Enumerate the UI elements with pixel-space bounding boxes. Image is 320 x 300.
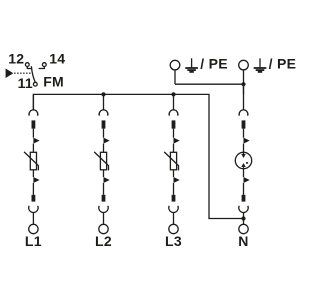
thermal disconnect arrow L2 lower bbox=[104, 177, 110, 183]
thermal disconnect arrow L2 upper bbox=[104, 138, 110, 144]
plug connector arc N lower bbox=[239, 206, 248, 213]
label 11 bbox=[18, 75, 33, 91]
spark gap F1 (N-PE) bbox=[235, 152, 251, 168]
wire L2 to terminal bbox=[103, 213, 105, 225]
wire L1 top drop bbox=[32, 94, 34, 110]
wire L2 top drop bbox=[103, 94, 105, 110]
terminal L1 bbox=[29, 224, 38, 233]
label L3 bbox=[165, 233, 182, 249]
plug connector arc L3 lower bbox=[169, 206, 178, 213]
thermal disconnect arrow L1 upper bbox=[33, 138, 39, 144]
contact point 12 bbox=[25, 63, 31, 69]
wire N to terminal bbox=[243, 213, 245, 225]
plug connector arc L1 lower bbox=[29, 206, 38, 213]
svg-text:L3: L3 bbox=[165, 233, 182, 249]
wire L2 lower bbox=[103, 183, 105, 195]
terminal PE right bbox=[239, 60, 249, 70]
plug connector arc L2 upper bbox=[99, 110, 108, 116]
svg-text:FM: FM bbox=[43, 73, 64, 89]
actuator dotted link bbox=[14, 72, 30, 74]
varistor L2 bbox=[94, 152, 108, 171]
actuator arrow FM bbox=[6, 69, 14, 79]
wire L3 to varistor bbox=[173, 144, 175, 153]
plug connector arc L2 lower bbox=[99, 206, 108, 213]
wire N below spark gap bbox=[243, 167, 245, 177]
wire L2 upper bbox=[103, 129, 105, 138]
terminal N bbox=[239, 224, 248, 233]
contact point 11 (common) bbox=[33, 82, 37, 86]
wire L3 to terminal bbox=[173, 213, 175, 225]
label N bbox=[238, 233, 248, 249]
disconnect bar L2 upper bbox=[102, 120, 106, 128]
svg-text:L1: L1 bbox=[25, 233, 42, 249]
svg-text:/ PE: / PE bbox=[269, 55, 297, 71]
wire L3 below varistor bbox=[173, 170, 175, 177]
label / PE right bbox=[269, 55, 297, 71]
varistor L1 bbox=[24, 152, 38, 171]
label 12 bbox=[8, 51, 24, 67]
wire N lower bbox=[243, 183, 245, 195]
wire L3 top drop bbox=[173, 94, 175, 110]
wire PE left down bbox=[174, 70, 176, 84]
thermal disconnect arrow L3 upper bbox=[174, 138, 180, 144]
wire N upper bbox=[243, 129, 245, 138]
thermal disconnect arrow N upper bbox=[244, 138, 250, 144]
plug connector arc L1 upper bbox=[29, 110, 38, 116]
wire L3 lower bbox=[173, 183, 175, 195]
disconnect bar L2 lower bbox=[102, 195, 106, 202]
wire N to spark gap bbox=[243, 144, 245, 154]
ground symbol right bbox=[254, 58, 267, 72]
junction dot bus-L3 bbox=[171, 92, 175, 96]
disconnect bar L1 upper bbox=[32, 120, 36, 128]
label L2 bbox=[95, 233, 112, 249]
svg-text:12: 12 bbox=[8, 51, 24, 67]
wire L2 to varistor bbox=[103, 144, 105, 153]
terminal L2 bbox=[99, 224, 108, 233]
plug connector arc N upper bbox=[239, 110, 248, 116]
label L1 bbox=[25, 233, 42, 249]
wire L1 below varistor bbox=[32, 170, 34, 177]
thermal disconnect arrow N lower bbox=[244, 177, 250, 183]
svg-text:/ PE: / PE bbox=[200, 55, 228, 71]
terminal PE left bbox=[170, 60, 180, 70]
svg-text:N: N bbox=[238, 233, 248, 249]
plug connector arc L3 upper bbox=[169, 110, 178, 116]
bus wire (L-branch common) bbox=[33, 94, 243, 218]
svg-text:11: 11 bbox=[18, 75, 33, 91]
switch lever FM bbox=[31, 66, 35, 82]
disconnect bar N upper bbox=[242, 120, 246, 128]
wire L1 to varistor bbox=[32, 144, 34, 153]
disconnect bar L3 upper bbox=[172, 120, 176, 128]
wire L1 lower bbox=[32, 183, 34, 195]
disconnect bar L3 lower bbox=[172, 195, 176, 202]
varistor L3 bbox=[164, 152, 178, 171]
thermal disconnect arrow L3 lower bbox=[174, 177, 180, 183]
label / PE left bbox=[200, 55, 228, 71]
wire N top drop bbox=[243, 84, 245, 110]
wire PE right down bbox=[243, 70, 245, 95]
wire PE link bbox=[175, 83, 244, 85]
ground symbol left bbox=[185, 58, 198, 72]
contact point 14 bbox=[39, 63, 47, 69]
junction dot bus-L2 bbox=[101, 92, 105, 96]
wire L2 below varistor bbox=[103, 170, 105, 177]
svg-text:L2: L2 bbox=[95, 233, 112, 249]
disconnect bar L1 lower bbox=[32, 195, 36, 202]
label 14 bbox=[49, 51, 65, 67]
junction dot node PE bbox=[241, 82, 245, 86]
wire L1 to terminal bbox=[32, 213, 34, 225]
wire L3 upper bbox=[173, 129, 175, 138]
wire L1 upper bbox=[32, 129, 34, 138]
label FM bbox=[43, 73, 64, 89]
disconnect bar N lower bbox=[242, 195, 246, 202]
thermal disconnect arrow L1 lower bbox=[33, 177, 39, 183]
terminal L3 bbox=[169, 224, 178, 233]
junction dot node N bbox=[241, 216, 245, 220]
svg-text:14: 14 bbox=[49, 51, 65, 67]
